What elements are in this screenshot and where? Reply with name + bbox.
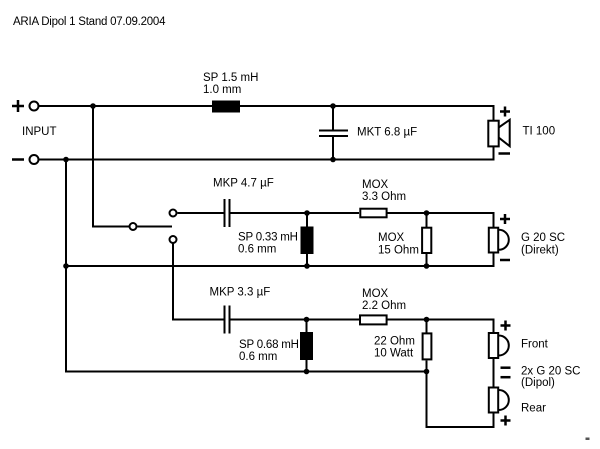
svg-text:15 Ohm: 15 Ohm bbox=[378, 245, 419, 257]
wire: TI100 minus drop bbox=[493, 147, 495, 161]
svg-text:(Direkt): (Direkt) bbox=[521, 245, 559, 257]
node: R2 top junction bbox=[424, 210, 430, 216]
wire: minus rail bbox=[39, 159, 494, 161]
node: L2 top junction bbox=[304, 210, 310, 216]
svg-text:MKT 6.8 µF: MKT 6.8 µF bbox=[357, 127, 417, 139]
wire: C2 to R1 bbox=[231, 212, 360, 214]
node: plus rail / switch feed junction bbox=[90, 103, 96, 109]
svg-text:MOX: MOX bbox=[362, 179, 389, 191]
node: C1 top junction bbox=[330, 103, 336, 109]
wire: series link between dipole speakers bbox=[493, 358, 495, 389]
SP4 minus mark bbox=[501, 376, 511, 379]
switch S1 common contact bbox=[130, 223, 137, 230]
resistor R2 MOX 15 Ohm shunt bbox=[426, 213, 428, 227]
svg-text:SP 0.33 mH: SP 0.33 mH bbox=[238, 232, 298, 244]
wire: R3 to SP3 bbox=[388, 319, 494, 321]
speaker SP1 TI 100 bbox=[488, 120, 509, 147]
input minus polarity mark bbox=[12, 158, 24, 161]
svg-text:Rear: Rear bbox=[521, 403, 546, 415]
inductor L3 SP 0.68 mH shunt bbox=[306, 320, 308, 333]
resistor R1 MOX 3.3 Ohm bbox=[360, 209, 386, 218]
svg-text:SP 0.68 mH: SP 0.68 mH bbox=[239, 339, 299, 351]
svg-text:MKP 4.7 µF: MKP 4.7 µF bbox=[213, 178, 274, 190]
speaker SP3 Front G 20 SC bbox=[489, 333, 509, 358]
node: return rail left junction bbox=[63, 263, 69, 269]
wire: SP3 plus drop bbox=[493, 319, 495, 333]
svg-text:22 Ohm: 22 Ohm bbox=[374, 336, 415, 348]
node: L3 top junction bbox=[304, 317, 310, 323]
svg-text:MKP 3.3 µF: MKP 3.3 µF bbox=[210, 287, 271, 299]
wire: switch feed drop bbox=[93, 106, 129, 227]
node: R4 bottom junction bbox=[424, 369, 430, 375]
svg-text:TI 100: TI 100 bbox=[523, 126, 556, 138]
svg-text:0.6 mm: 0.6 mm bbox=[238, 244, 276, 256]
capacitor C1 MKT 6.8 uF leads bbox=[332, 106, 334, 130]
node: minus rail / left bus junction bbox=[63, 157, 69, 163]
svg-text:(Dipol): (Dipol) bbox=[521, 377, 555, 389]
speaker SP4 Rear G 20 SC bbox=[489, 388, 509, 413]
svg-text:INPUT: INPUT bbox=[22, 126, 57, 138]
inductor L1 SP 1.5 mH bbox=[212, 101, 240, 113]
wire: branch 2 return rail bbox=[66, 265, 494, 267]
svg-text:MOX: MOX bbox=[362, 288, 389, 300]
svg-text:MOX: MOX bbox=[378, 232, 405, 244]
switch S1 upper throw contact bbox=[170, 210, 177, 217]
wire: plus rail top bbox=[39, 105, 494, 107]
SP2 minus mark bbox=[500, 259, 510, 262]
svg-text:0.6 mm: 0.6 mm bbox=[239, 351, 277, 363]
wire: SP2 plus drop bbox=[493, 212, 495, 227]
SP1 plus mark bbox=[500, 107, 510, 117]
wire: SP2 minus drop bbox=[493, 252, 495, 267]
svg-text:G 20 SC: G 20 SC bbox=[521, 232, 565, 244]
SP3 plus mark bbox=[501, 321, 511, 331]
svg-text:Front: Front bbox=[521, 339, 549, 351]
switch S1 lower throw contact bbox=[170, 236, 177, 243]
node: L3 bottom junction bbox=[304, 369, 310, 375]
svg-text:ARIA Dipol 1 Stand 07.09.2004: ARIA Dipol 1 Stand 07.09.2004 bbox=[13, 16, 166, 28]
wire: R1 to SP2 bbox=[388, 212, 494, 214]
svg-text:1.0 mm: 1.0 mm bbox=[203, 84, 241, 96]
capacitor C2 MKP 4.7 uF plates bbox=[224, 199, 226, 227]
resistor R4 22 Ohm 10 Watt shunt bbox=[426, 320, 428, 333]
wire: TI100 plus drop bbox=[493, 105, 495, 120]
input plus terminal bbox=[30, 102, 39, 111]
svg-text:2x G 20 SC: 2x G 20 SC bbox=[521, 366, 580, 378]
wire: C3 to R3 bbox=[231, 319, 360, 321]
switch S1 blade bbox=[138, 226, 173, 228]
svg-text:3.3 Ohm: 3.3 Ohm bbox=[362, 191, 406, 203]
SP2 plus mark bbox=[500, 214, 510, 224]
input plus polarity mark bbox=[12, 100, 24, 112]
svg-text:10 Watt: 10 Watt bbox=[374, 348, 414, 360]
wire: upper throw to C2 bbox=[178, 212, 224, 214]
wire: lower throw to C3 bbox=[173, 244, 224, 320]
SP3 minus mark bbox=[501, 366, 511, 369]
capacitor C3 MKP 3.3 uF plates bbox=[224, 306, 226, 334]
node: L2 bottom junction bbox=[304, 263, 310, 269]
svg-text:SP 1.5 mH: SP 1.5 mH bbox=[203, 72, 258, 84]
wire: left minus bus and branch 3 return rail bbox=[66, 160, 427, 372]
input minus terminal bbox=[30, 155, 39, 164]
svg-text:2.2 Ohm: 2.2 Ohm bbox=[362, 300, 406, 312]
inductor L2 SP 0.33 mH shunt bbox=[306, 213, 308, 227]
node: R4 top junction bbox=[424, 317, 430, 323]
speaker SP2 G 20 SC bbox=[489, 228, 509, 253]
SP1 minus mark bbox=[499, 152, 511, 155]
node: R2 bottom junction bbox=[424, 263, 430, 269]
SP4 plus mark bbox=[501, 416, 511, 426]
node: C1 bottom junction bbox=[330, 157, 336, 163]
capacitor C1 plates bbox=[319, 130, 348, 132]
resistor R3 MOX 2.2 Ohm bbox=[360, 315, 387, 324]
wire: dipole return link bbox=[427, 372, 494, 428]
scan artifact mark bbox=[586, 438, 590, 441]
